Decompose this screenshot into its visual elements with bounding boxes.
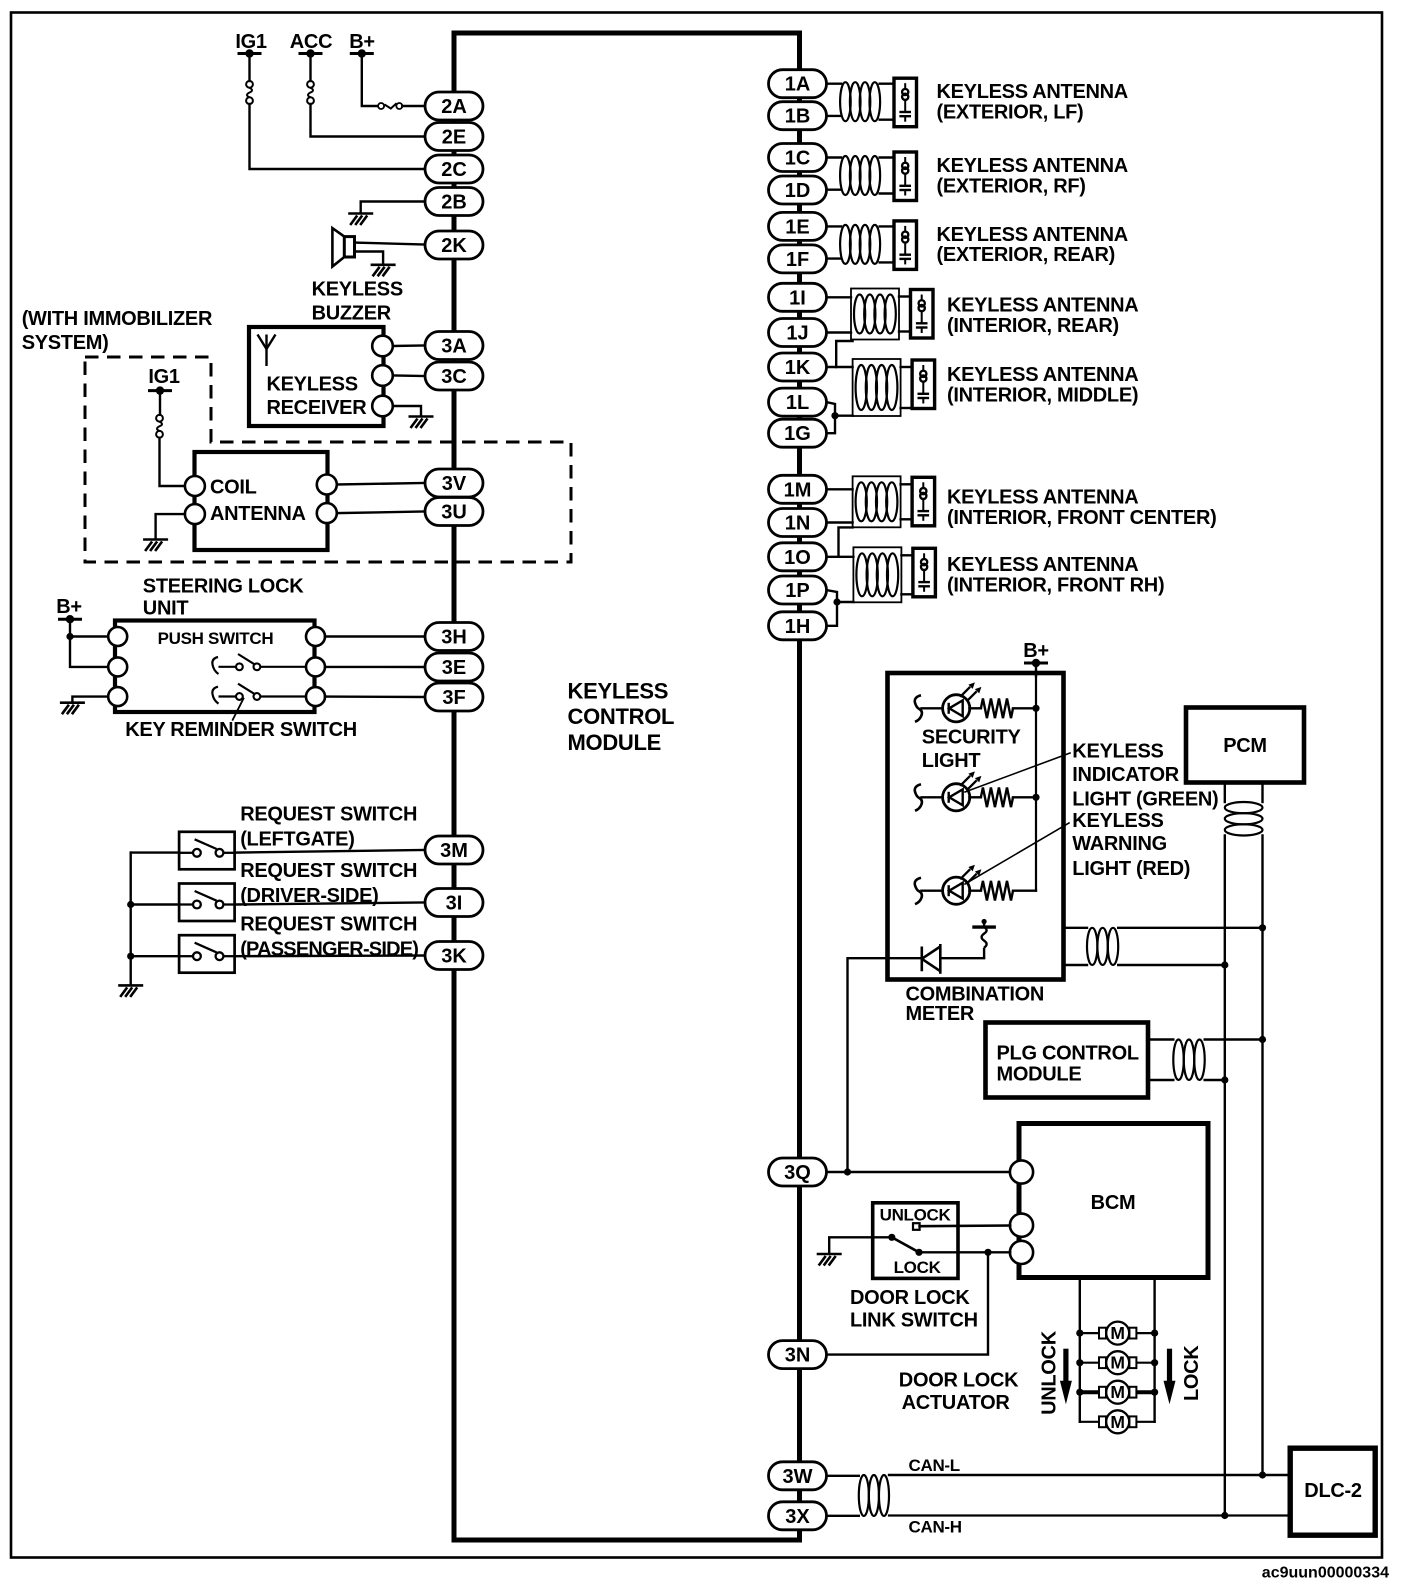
wire motor 2 right (1136, 1362, 1154, 1364)
junction meter B+ bus row1 (1032, 705, 1039, 712)
wire pin 1O to front RH antenna (826, 556, 853, 558)
coil antenna box (195, 452, 328, 550)
link switch pivot contact (888, 1234, 895, 1241)
svg-text:1E: 1E (785, 216, 809, 238)
wire resistor to bus security (1013, 707, 1036, 709)
power tap IG1 (238, 49, 262, 57)
junction request switch bus / driver-side (127, 901, 134, 908)
wire driver-side switch (131, 903, 179, 905)
door lock motor M3 (1099, 1381, 1136, 1404)
steering lock terminal right 1 (306, 627, 325, 646)
wire pin 1P to node (826, 590, 837, 626)
request switch box leftgate (179, 832, 235, 870)
svg-text:LIGHT: LIGHT (922, 750, 981, 772)
svg-text:2K: 2K (441, 235, 467, 257)
pin 1H (769, 612, 827, 640)
ground pin 2B (348, 214, 373, 226)
svg-text:1P: 1P (785, 580, 809, 602)
wire PLG CAN lower to bus (1205, 1079, 1225, 1081)
wire meter CAN upper to bus (1118, 927, 1262, 929)
wire B+ into combination meter (1035, 663, 1037, 676)
junction motor bus left M1 (1076, 1330, 1083, 1337)
wire node to middle antenna bottom (835, 415, 853, 417)
wire to unit box rear (899, 295, 911, 297)
pin 3H (425, 623, 483, 651)
wire coil to unit REAR (880, 225, 894, 227)
switch contact push switch (212, 654, 306, 674)
keyless antenna unit box interior rear (911, 290, 934, 339)
keyless receiver box (249, 327, 384, 426)
LED security (943, 682, 982, 722)
svg-text:3V: 3V (442, 473, 467, 495)
ground steering lock (60, 703, 85, 715)
door lock motor M1 (1099, 1322, 1136, 1345)
fuse IG1 (246, 81, 253, 104)
wire sounder to piezo (940, 957, 984, 959)
wire rear antenna bottom loop to pin 1K (836, 341, 852, 367)
wire coil to unit LF (880, 82, 894, 84)
pin 1J (769, 319, 827, 347)
coil interior antenna front center (856, 482, 898, 521)
svg-text:3K: 3K (441, 946, 467, 968)
junction motor bus right M2 (1151, 1359, 1158, 1366)
wire coil antenna to pin 3U (337, 512, 425, 514)
pin 3K (425, 942, 483, 970)
wire link switch pivot to ground (829, 1237, 892, 1252)
svg-text:IG1: IG1 (148, 366, 180, 388)
wire coil antenna to ground (156, 514, 185, 538)
wire pin 1J to interior rear antenna (826, 331, 851, 333)
svg-text:3C: 3C (441, 366, 467, 388)
svg-text:LOCK: LOCK (1181, 1345, 1203, 1401)
pin 2A (425, 92, 483, 120)
svg-text:KEYLESS ANTENNA: KEYLESS ANTENNA (947, 554, 1138, 576)
svg-text:UNLOCK: UNLOCK (880, 1206, 952, 1225)
wire exterior antenna REAR top (826, 225, 841, 227)
keyless antenna unit box exterior LF (894, 78, 917, 127)
twisted pair meter CAN (1087, 928, 1118, 965)
svg-text:3Q: 3Q (784, 1162, 811, 1184)
ground request switches (118, 985, 143, 997)
contact curl warning (915, 878, 922, 905)
pin 3A (425, 332, 483, 360)
wire front center antenna bottom loop to pin 1O (839, 527, 853, 556)
svg-text:2E: 2E (442, 127, 466, 149)
wire exterior antenna REAR bottom (826, 257, 841, 259)
junction PLG CAN lower / bus (1221, 1076, 1228, 1083)
svg-text:(EXTERIOR, REAR): (EXTERIOR, REAR) (937, 244, 1116, 266)
wire PCM right to CAN twist (1261, 783, 1263, 803)
wire PCM left to CAN twist (1224, 783, 1226, 803)
svg-text:LOCK: LOCK (894, 1258, 942, 1277)
interior antenna assembly middle (853, 359, 901, 416)
svg-text:LIGHT (GREEN): LIGHT (GREEN) (1072, 788, 1218, 810)
svg-text:ANTENNA: ANTENNA (210, 503, 306, 525)
power tap B+ top (350, 49, 374, 57)
wire motor 1 right (1136, 1332, 1154, 1334)
wire B+ to switch (362, 54, 378, 107)
svg-text:1L: 1L (786, 392, 809, 414)
pin 1I (769, 283, 827, 311)
svg-text:STEERING LOCK: STEERING LOCK (143, 576, 304, 598)
unlock contact (913, 1223, 920, 1230)
junction motor bus left M3 (1076, 1389, 1083, 1396)
wire steering lock to ground (72, 697, 107, 701)
LED indicator (943, 771, 982, 811)
wire pin 1I to interior rear antenna (826, 296, 851, 298)
svg-text:RECEIVER: RECEIVER (267, 397, 368, 419)
svg-text:KEY REMINDER SWITCH: KEY REMINDER SWITCH (125, 719, 357, 741)
wire leftgate switch (131, 851, 179, 853)
pin 1C (769, 144, 827, 172)
wire pin 2B to ground (361, 202, 425, 213)
coil antenna terminal left 2 (185, 504, 205, 524)
wire switch to pin 2A (402, 105, 425, 107)
pin 3C (425, 362, 483, 390)
svg-text:WARNING: WARNING (1072, 833, 1167, 855)
svg-text:KEYLESS ANTENNA: KEYLESS ANTENNA (937, 224, 1128, 246)
wire buzzer to ground (355, 252, 384, 264)
svg-text:KEYLESS ANTENNA: KEYLESS ANTENNA (947, 364, 1138, 386)
steering lock terminal left 3 (108, 687, 127, 706)
pin 3E (425, 653, 483, 681)
wire buzzer to pin 2K (355, 243, 426, 245)
wire curl to LED warning (922, 890, 944, 892)
junction 1P-1H node (833, 598, 840, 605)
keyless antenna unit box interior front RH (913, 548, 936, 597)
junction 3Q / meter wire (844, 1168, 851, 1175)
wire receiver T1 to pin 3A (393, 344, 425, 347)
wire IG1 to fuse (159, 391, 161, 415)
svg-text:LINK SWITCH: LINK SWITCH (850, 1310, 978, 1332)
svg-text:(LEFTGATE): (LEFTGATE) (240, 829, 354, 851)
wire node to front RH antenna bottom (837, 601, 853, 603)
keyless control module box (454, 33, 800, 1540)
svg-text:CAN-L: CAN-L (909, 1456, 960, 1475)
wire PLG CAN lower (1148, 1079, 1173, 1081)
contact curl indicator (915, 784, 922, 811)
svg-text:1C: 1C (785, 148, 811, 170)
svg-text:1D: 1D (785, 180, 811, 202)
pointer to keyless indicator light (965, 753, 1070, 792)
keyless antenna unit box exterior RF (894, 152, 917, 201)
pin 1E (769, 212, 827, 240)
junction CAN-H / bus (1221, 1512, 1228, 1519)
svg-text:ACTUATOR: ACTUATOR (902, 1392, 1011, 1414)
junction meter B+ bus row2 (1032, 794, 1039, 801)
wire CAN-L (889, 1474, 1290, 1476)
svg-text:2A: 2A (441, 96, 467, 118)
ground link switch (817, 1254, 842, 1266)
power tap ACC (299, 49, 323, 57)
wire unlock contact to BCM T2 (920, 1224, 1011, 1227)
meter internal B+ bus (1035, 676, 1037, 891)
svg-text:COIL: COIL (210, 477, 257, 499)
pin 2K (425, 231, 483, 259)
pin 2B (425, 188, 483, 216)
svg-text:LIGHT (RED): LIGHT (RED) (1072, 858, 1190, 880)
svg-text:M: M (1110, 1323, 1125, 1343)
svg-text:1M: 1M (784, 479, 812, 501)
svg-text:MODULE: MODULE (568, 730, 662, 755)
svg-text:(INTERIOR, FRONT CENTER): (INTERIOR, FRONT CENTER) (947, 507, 1216, 529)
resistor warning (981, 881, 1013, 901)
wire IG1 to fuse (248, 54, 250, 82)
interior antenna assembly front RH (853, 547, 901, 602)
twisted pair CAN 3W/3X (859, 1475, 889, 1516)
svg-text:(EXTERIOR, RF): (EXTERIOR, RF) (937, 175, 1086, 197)
svg-text:CONTROL: CONTROL (568, 704, 675, 729)
coil interior antenna middle (856, 365, 898, 410)
svg-text:SECURITY: SECURITY (922, 727, 1022, 749)
svg-text:DLC-2: DLC-2 (1304, 1480, 1362, 1502)
junction 1L-1G node (831, 412, 838, 419)
door lock motor M4 (1099, 1410, 1136, 1433)
pin 3I (425, 889, 483, 917)
steering lock terminal left 2 (108, 657, 127, 676)
coil antenna terminal right 2 (317, 503, 337, 523)
request switch ground bus (129, 853, 131, 984)
junction motor bus right M1 (1151, 1330, 1158, 1337)
pin 1M (769, 475, 827, 503)
lock contact (915, 1249, 922, 1256)
BCM terminal 2 (1010, 1214, 1033, 1237)
door lock link switch box (873, 1203, 958, 1279)
junction motor bus right M3 (1151, 1389, 1158, 1396)
wire motor 4 left (1080, 1421, 1099, 1423)
svg-text:ac9uun00000334: ac9uun00000334 (1262, 1565, 1389, 1582)
svg-text:BCM: BCM (1091, 1192, 1136, 1214)
wire pin 1M to front center antenna (826, 488, 852, 490)
coil interior antenna rear (854, 295, 896, 334)
ground receiver (409, 417, 434, 429)
wire meter CAN lower (1064, 964, 1088, 966)
svg-text:(PASSENGER-SIDE): (PASSENGER-SIDE) (240, 939, 418, 961)
piezo element (972, 922, 996, 959)
svg-text:3I: 3I (446, 893, 463, 915)
wire receiver T2 to pin 3C (393, 374, 425, 377)
pin 3Q (769, 1158, 827, 1186)
steering lock unit box (115, 621, 315, 713)
pin 1D (769, 176, 827, 204)
coil exterior antenna REAR (840, 225, 880, 264)
svg-text:M: M (1110, 1382, 1125, 1402)
svg-text:PCM: PCM (1223, 735, 1267, 757)
twisted pair PLG CAN (1173, 1040, 1204, 1081)
pin 3X (769, 1502, 827, 1530)
wire PLG CAN upper to bus (1205, 1038, 1263, 1040)
receiver antenna symbol (258, 335, 276, 367)
request switch box driver-side (179, 884, 235, 922)
wire pin 1N to front center antenna (826, 521, 852, 523)
power tap B+ steering (58, 615, 82, 623)
interior antenna assembly front center (853, 476, 901, 527)
junction lock wire / 3N (984, 1249, 991, 1256)
coil antenna terminal left 1 (185, 476, 205, 496)
svg-text:KEYLESS: KEYLESS (312, 279, 403, 301)
svg-text:KEYLESS: KEYLESS (1072, 741, 1163, 763)
svg-text:3U: 3U (441, 502, 467, 524)
wire motor 4 right (1136, 1421, 1154, 1423)
svg-text:1A: 1A (785, 74, 811, 96)
wire exterior antenna RF top (826, 156, 841, 158)
combination meter box (888, 673, 1064, 980)
svg-text:(INTERIOR, FRONT RH): (INTERIOR, FRONT RH) (947, 574, 1164, 596)
svg-text:(EXTERIOR, LF): (EXTERIOR, LF) (937, 102, 1084, 124)
coil exterior antenna RF (840, 156, 880, 195)
unlock direction arrow (1063, 1349, 1068, 1382)
svg-text:3E: 3E (442, 657, 466, 679)
pin 3N (769, 1341, 827, 1369)
svg-text:3A: 3A (441, 336, 467, 358)
wire passenger-side switch (131, 955, 179, 957)
wire steering lock to pin 3E (325, 666, 425, 668)
pin 3V (425, 469, 483, 497)
switch contact key reminder switch (212, 684, 306, 704)
svg-text:BUZZER: BUZZER (312, 303, 392, 325)
wire meter CAN lower to bus (1118, 964, 1225, 966)
wire exterior antenna RF bottom (826, 188, 841, 190)
wire curl to LED security (922, 707, 944, 709)
svg-text:MODULE: MODULE (997, 1064, 1082, 1086)
pin 3U (425, 498, 483, 526)
contact curl security (915, 695, 922, 722)
DLC-2 box (1290, 1448, 1375, 1535)
junction motor bus left M2 (1076, 1359, 1083, 1366)
keyless antenna unit box interior front center (912, 477, 935, 526)
junction meter CAN lower / bus (1221, 961, 1228, 968)
steering lock terminal left 1 (108, 627, 127, 646)
coil interior antenna front RH (856, 553, 898, 596)
motor bus left (1079, 1278, 1081, 1422)
wire lock contact to BCM T3 (919, 1251, 1010, 1253)
receiver terminal 3 (372, 396, 393, 417)
LED warning (943, 865, 982, 905)
pin 1N (769, 509, 827, 537)
svg-text:DOOR LOCK: DOOR LOCK (899, 1370, 1019, 1392)
svg-text:1B: 1B (785, 106, 811, 128)
svg-text:CAN-H: CAN-H (909, 1518, 962, 1537)
junction PLG CAN upper / bus (1259, 1036, 1266, 1043)
ground buzzer (371, 265, 396, 277)
pin 1K (769, 353, 827, 381)
wire LED to resistor security (969, 707, 981, 709)
wire coil to unit RF (880, 156, 894, 158)
pin 1A (769, 70, 827, 98)
wire CAN-H (889, 1514, 1290, 1516)
steering lock terminal right 3 (306, 687, 325, 706)
wire to unit box middle (901, 366, 913, 368)
svg-text:1H: 1H (785, 616, 811, 638)
svg-text:1J: 1J (786, 323, 808, 345)
wire steering lock to pin 3H (325, 635, 425, 637)
dashed boundary (WITH IMMOBILIZER SYSTEM) (85, 357, 571, 562)
svg-text:REQUEST SWITCH: REQUEST SWITCH (240, 860, 417, 882)
svg-text:1G: 1G (784, 423, 811, 445)
PLG control module box (986, 1023, 1149, 1098)
wire to unit box front RH (901, 554, 913, 556)
svg-text:B+: B+ (1023, 640, 1049, 662)
wire to unit box front center (901, 483, 913, 485)
wire LED to resistor indicator (969, 796, 981, 798)
CAN bus vertical left (to CAN-H) (1224, 836, 1226, 1516)
wire curl to LED indicator (922, 796, 944, 798)
svg-text:1K: 1K (785, 357, 811, 379)
wire LED to resistor warning (969, 890, 981, 892)
wire exterior antenna LF top (826, 82, 841, 84)
pin 1F (769, 245, 827, 273)
wire coil antenna to pin 3V (337, 483, 425, 485)
junction B+ steering feed (66, 633, 73, 640)
door lock motor M2 (1099, 1351, 1136, 1374)
svg-text:3M: 3M (440, 840, 468, 862)
pin 1L (769, 388, 827, 416)
wire IG1 fuse to coil antenna (160, 438, 185, 486)
resistor security (981, 699, 1013, 719)
wire motor 1 left (1080, 1332, 1099, 1334)
svg-text:KEYLESS ANTENNA: KEYLESS ANTENNA (937, 81, 1128, 103)
pin 1B (769, 102, 827, 130)
wire pin 3N to lock node (826, 1252, 988, 1354)
BCM box (1019, 1124, 1208, 1278)
pin 2E (425, 123, 483, 151)
keyless antenna unit box exterior REAR (894, 221, 917, 270)
twisted pair PCM CAN (1225, 802, 1263, 836)
svg-text:2C: 2C (441, 159, 467, 181)
svg-text:INDICATOR: INDICATOR (1072, 764, 1179, 786)
svg-text:3W: 3W (783, 1466, 813, 1488)
meter buzzer sounder triangle (922, 944, 941, 974)
svg-text:KEYLESS: KEYLESS (1072, 810, 1163, 832)
wire ACC fuse to pin 2E (311, 104, 426, 137)
svg-text:UNIT: UNIT (143, 597, 189, 619)
receiver terminal 2 (372, 365, 393, 386)
svg-text:DOOR LOCK: DOOR LOCK (850, 1287, 970, 1309)
svg-text:PUSH SWITCH: PUSH SWITCH (158, 629, 274, 648)
steering lock terminal right 2 (306, 657, 325, 676)
svg-text:1I: 1I (789, 287, 806, 309)
interior antenna assembly rear (851, 289, 899, 340)
wire resistor to bus indicator (1013, 796, 1036, 798)
svg-text:M: M (1110, 1353, 1125, 1373)
wire motor 3 right (1136, 1390, 1154, 1394)
motor bus right (1153, 1278, 1155, 1422)
svg-text:2B: 2B (441, 192, 467, 214)
wire ACC to fuse (309, 54, 311, 82)
svg-text:KEYLESS ANTENNA: KEYLESS ANTENNA (937, 155, 1128, 177)
wire meter CAN upper (1064, 927, 1088, 929)
svg-text:REQUEST SWITCH: REQUEST SWITCH (240, 914, 417, 936)
svg-text:M: M (1110, 1412, 1125, 1432)
power tap combination meter B+ (1024, 659, 1048, 667)
pin 1P (769, 576, 827, 604)
ground coil antenna (143, 540, 168, 552)
CAN bus vertical right (to CAN-L) (1261, 836, 1263, 1476)
svg-text:1F: 1F (786, 249, 809, 271)
svg-text:3X: 3X (785, 1506, 810, 1528)
wire PLG CAN upper (1148, 1038, 1173, 1040)
svg-text:(DRIVER-SIDE): (DRIVER-SIDE) (240, 885, 378, 907)
junction CAN-L / bus (1259, 1471, 1266, 1478)
pin 2C (425, 155, 483, 183)
svg-text:1N: 1N (785, 513, 811, 535)
svg-text:(INTERIOR, MIDDLE): (INTERIOR, MIDDLE) (947, 385, 1138, 407)
svg-text:(WITH IMMOBILIZER: (WITH IMMOBILIZER (22, 308, 213, 330)
svg-text:METER: METER (906, 1003, 975, 1025)
svg-text:3F: 3F (442, 687, 465, 709)
keyless antenna unit box interior middle (912, 360, 935, 409)
pointer line key reminder switch (233, 699, 244, 720)
